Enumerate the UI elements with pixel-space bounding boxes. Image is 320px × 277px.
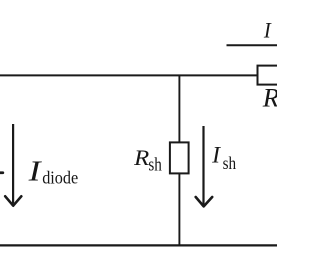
svg-text:sh: sh (148, 154, 162, 175)
wire top horizontal (0, 74, 257, 76)
wire bottom horizontal (0, 244, 279, 246)
current arrow I_diode head (5, 196, 21, 205)
current arrow I_sh shaft (202, 126, 204, 205)
svg-text:R: R (133, 145, 150, 170)
svg-text:diode: diode (42, 168, 78, 188)
wire current-arrow shaft for I (arrowhead cropped off right) (227, 44, 281, 46)
resistor R_sh body (170, 142, 189, 173)
wire R_sh branch upper segment (178, 75, 180, 144)
current arrow I_sh head (196, 197, 213, 206)
svg-text:R: R (262, 82, 277, 112)
svg-text:I: I (27, 156, 42, 188)
node stub (cropped symbol fragment at left edge) (0, 171, 4, 174)
svg-text:I: I (211, 143, 221, 169)
svg-text:sh: sh (223, 153, 237, 173)
current arrow I_diode shaft (12, 124, 14, 204)
wire R_sh branch lower segment (178, 173, 180, 246)
resistor R (series, cropped at right edge) (258, 66, 300, 85)
